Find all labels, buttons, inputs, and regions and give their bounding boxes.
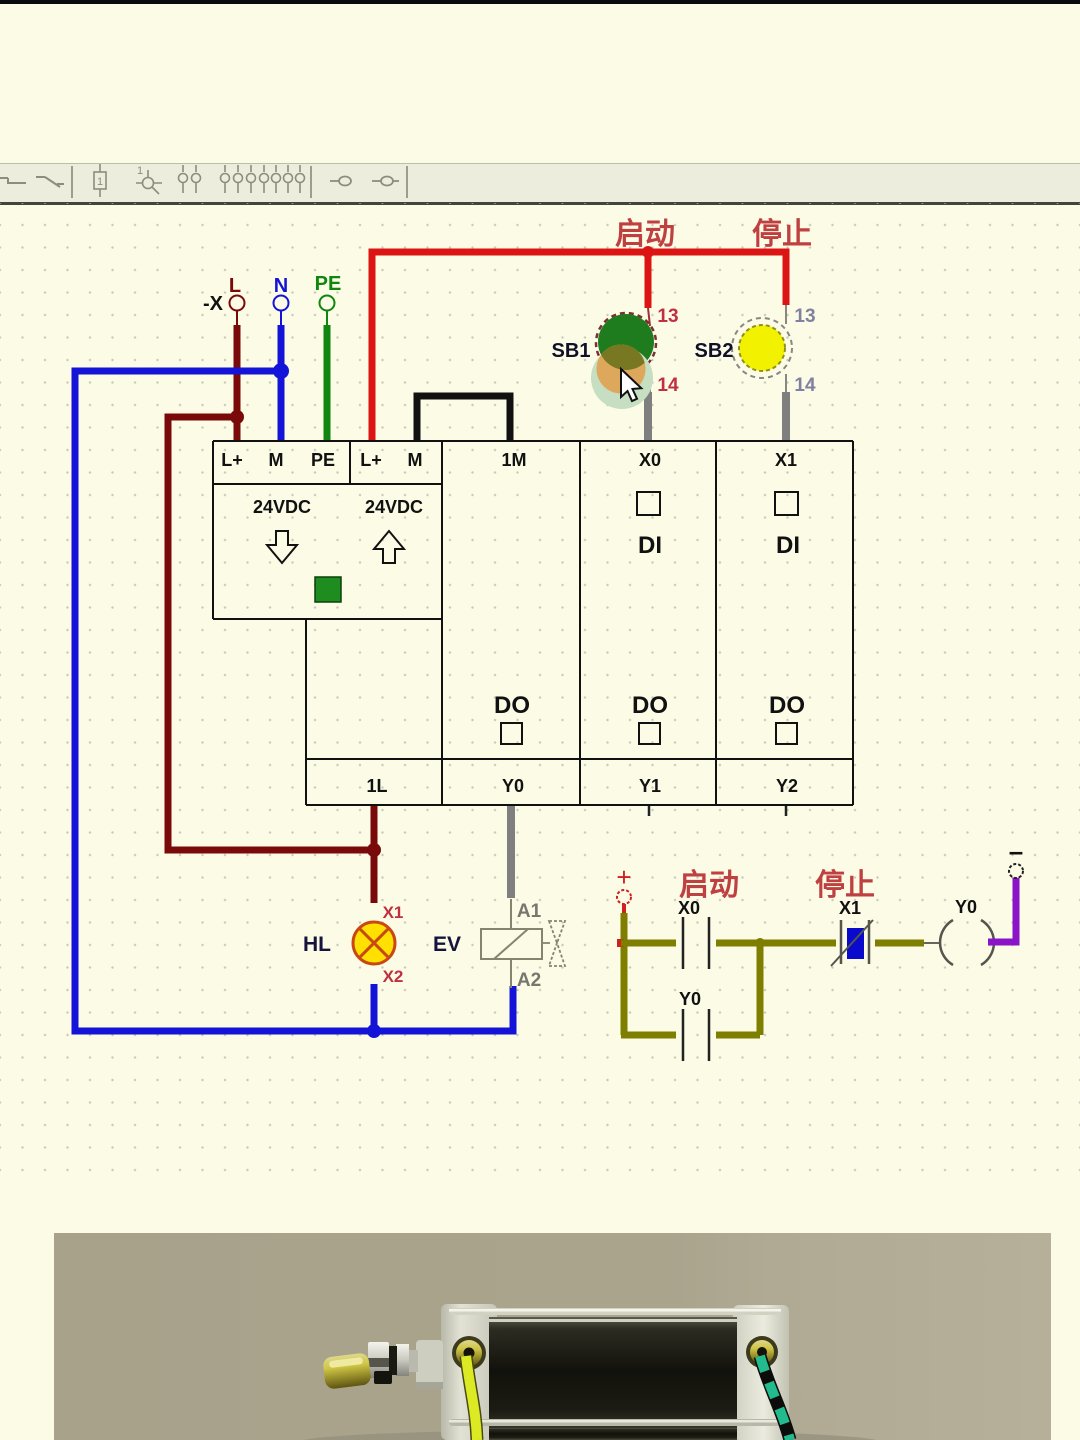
node: red junction above SB1 (642, 246, 654, 258)
svg-text:SB2: SB2 (695, 340, 734, 362)
PLC power LED green square (315, 577, 341, 602)
ladder coil Y0 arcs (940, 920, 994, 965)
node: ladder junction at parallel branch (755, 938, 765, 948)
toolbar icon: wire hook (0, 178, 26, 183)
PLC DI indicator square X0 (637, 492, 660, 515)
pushbutton SB1 overlap olive (597, 345, 646, 394)
svg-text:Y2: Y2 (776, 776, 798, 796)
PLC upper box bottom edge (213, 618, 442, 620)
ladder + terminal (617, 890, 631, 904)
svg-text:L+: L+ (221, 450, 243, 470)
cylinder photo: front end cap (441, 1304, 497, 1440)
wire: blue return bus to lamp and valve (75, 371, 513, 1031)
cylinder photo: teal striped hose (760, 1356, 790, 1440)
node: ladder red junction marker (617, 939, 624, 947)
solenoid EV coil diagonal (494, 929, 528, 959)
cylinder photo: hex nut (368, 1342, 389, 1378)
ladder branch vertical (757, 943, 764, 1035)
svg-text:1: 1 (97, 176, 103, 188)
svg-text:–: – (1009, 836, 1023, 866)
cylinder photo: rear port ring (746, 1336, 778, 1368)
svg-text:DO: DO (494, 692, 530, 719)
PLC down arrow 24VDC sink (267, 531, 297, 563)
svg-text:N: N (274, 275, 288, 297)
toolbar icon: 3 pins (221, 165, 256, 193)
PLC column divider PE|L+ (349, 441, 351, 484)
PLC DO indicator square Y1 (639, 723, 660, 744)
svg-text:24VDC: 24VDC (365, 497, 423, 517)
node: dark red junction at 1L drop (367, 843, 381, 857)
terminal -X PE (320, 296, 335, 311)
wire: dark red 1L to lamp X1 (371, 805, 378, 903)
ladder contact X0 (683, 917, 709, 969)
cylinder photo: rod boss collar (416, 1340, 443, 1389)
ladder rung X1 to coil (875, 940, 924, 947)
toolbar icon: 2 pins (179, 165, 201, 193)
svg-text:M: M (269, 450, 284, 470)
wire: gray Y0 output to EV A1 (507, 805, 515, 898)
PLC lower box left edge (305, 619, 307, 805)
svg-text:DI: DI (776, 532, 800, 559)
svg-text:X1: X1 (775, 450, 797, 470)
svg-text:Y0: Y0 (502, 776, 524, 796)
solenoid EV coil box (481, 929, 542, 959)
toolbar icon: probe left (330, 180, 339, 182)
wire: Y1 stub (648, 805, 651, 816)
PLC column divider X0|X1 (715, 441, 717, 805)
svg-text:24VDC: 24VDC (253, 497, 311, 517)
terminal -X N (274, 296, 289, 311)
pushbutton SB2 housing (732, 318, 792, 378)
svg-text:DO: DO (769, 692, 805, 719)
svg-text:A1: A1 (517, 901, 542, 922)
wire: red L+ supply from PLC up and across to buttons (372, 252, 786, 441)
PLC bottom label divider line (306, 758, 853, 760)
svg-text:X2: X2 (383, 967, 404, 986)
toolbar icon: switch (36, 177, 64, 187)
ladder lower rung left (621, 1032, 676, 1039)
pushbutton SB1 green cap (598, 314, 654, 370)
cylinder photo: rear end cap (733, 1305, 789, 1440)
ladder contact X1 NC slash (831, 920, 873, 966)
svg-text:PE: PE (311, 450, 335, 470)
solenoid EV valve bowtie (549, 921, 565, 966)
toolbar icon: probe right (372, 180, 381, 182)
svg-text:Y0: Y0 (679, 989, 701, 1009)
svg-text:-X: -X (203, 293, 224, 315)
ladder contact X1 lines (841, 920, 869, 964)
wire: red drop to SB1 pin 13 (645, 252, 652, 308)
ladder purple wire to - rail (988, 876, 1016, 942)
PLC terminal strip divider line (213, 483, 442, 485)
cylinder photo: brass tip (322, 1352, 372, 1389)
svg-text:Y1: Y1 (639, 776, 661, 796)
svg-text:X1: X1 (383, 903, 404, 922)
wire: dark red L phase down to PLC L+ (236, 310, 238, 441)
wire: black jumper M to 1M (417, 396, 510, 441)
svg-text:14: 14 (794, 375, 816, 396)
PLC DO indicator square Y0 (501, 723, 522, 744)
toolbar separator (406, 166, 408, 198)
ladder rung X0 to X1 (716, 940, 836, 947)
ladder contact X1 active blue box (847, 928, 864, 959)
PLC up arrow 24VDC source (374, 531, 404, 563)
wire: green PE down to PLC PE (326, 310, 328, 441)
cylinder photo: barrel (489, 1317, 737, 1438)
svg-text:X0: X0 (678, 898, 700, 918)
svg-text:1M: 1M (501, 450, 526, 470)
ladder red stub from + (622, 904, 626, 914)
svg-text:HL: HL (303, 933, 331, 956)
PLC column divider M|1M (441, 441, 443, 805)
cylinder photo: body shadow (300, 1430, 880, 1440)
lamp HL cross (359, 928, 389, 958)
svg-text:14: 14 (657, 375, 679, 396)
pushbutton SB1 housing (596, 313, 656, 373)
toolbar icon: component box 1 (94, 172, 106, 189)
toolbar separator (71, 166, 73, 198)
wire: gray SB2 pin14 to X1 (785, 374, 787, 393)
wire: EV A2 lead (510, 959, 512, 988)
ladder left power rail (621, 913, 628, 1035)
svg-text:DI: DI (638, 532, 662, 559)
wire: gray SB1 pin14 to X0 (649, 372, 651, 393)
svg-text:X1: X1 (839, 898, 861, 918)
wire: blue N down to PLC M (280, 310, 282, 441)
svg-text:EV: EV (433, 933, 461, 956)
lamp HL body (353, 922, 395, 964)
cylinder photo: top tie rod (449, 1308, 781, 1315)
node: blue junction under lamp (367, 1024, 381, 1038)
wire: dark red branch to HL lamp (168, 417, 374, 850)
toolbar separator (310, 166, 312, 198)
wire: thin pin lead SB2 13 (785, 305, 787, 324)
svg-text:SB1: SB1 (552, 340, 591, 362)
svg-text:L: L (229, 275, 241, 297)
svg-text:DO: DO (632, 692, 668, 719)
cylinder photo: yellow hose (466, 1356, 477, 1440)
node: blue junction (273, 363, 289, 379)
svg-text:1L: 1L (366, 776, 387, 796)
ladder rung to X0 contact (621, 940, 676, 947)
ladder coil lead (924, 942, 941, 944)
svg-text:A2: A2 (517, 970, 541, 991)
pushbutton SB1 pressed halo (591, 347, 653, 409)
node: dark red junction (230, 410, 244, 424)
cylinder photo: bottom tie rod (449, 1419, 781, 1426)
svg-text:PE: PE (315, 273, 342, 295)
cylinder photo: front port ring (452, 1336, 486, 1370)
svg-text:M: M (408, 450, 423, 470)
PLC module outline top (213, 441, 853, 805)
wire: Y2 stub (785, 805, 788, 816)
svg-text:启动: 启动 (615, 218, 675, 251)
ladder lower rung right (716, 1032, 760, 1039)
svg-text:1: 1 (137, 165, 143, 177)
ladder - terminal (1009, 864, 1023, 878)
toolbar icon: node 1 (143, 178, 154, 189)
PLC DI indicator square X1 (775, 492, 798, 515)
ladder contact Y0 seal-in (683, 1009, 709, 1061)
svg-text:停止: 停止 (752, 218, 812, 251)
solenoid EV lead to valve (542, 942, 550, 944)
cylinder photo: black collar (374, 1371, 392, 1384)
svg-text:13: 13 (794, 306, 815, 327)
cylinder photo: piston rod chrome nuts (408, 1350, 418, 1372)
PLC column divider 1M|X0 (579, 441, 581, 805)
svg-text:Y0: Y0 (955, 897, 977, 917)
pushbutton SB1 finger shade (597, 345, 646, 394)
pushbutton SB2 yellow cap (739, 325, 785, 371)
PLC DO indicator square Y2 (776, 723, 797, 744)
svg-text:13: 13 (657, 306, 678, 327)
mouse cursor (621, 369, 641, 401)
wire: thin pin lead SB1 13 (648, 308, 650, 326)
toolbar icon: 4 pins (260, 165, 305, 193)
wire: blue lamp X2 to bus (371, 984, 378, 1031)
svg-text:L+: L+ (360, 450, 382, 470)
svg-text:+: + (616, 862, 631, 892)
svg-text:X0: X0 (639, 450, 661, 470)
PLC bottom edge (306, 804, 853, 806)
terminal -X L (230, 296, 245, 311)
